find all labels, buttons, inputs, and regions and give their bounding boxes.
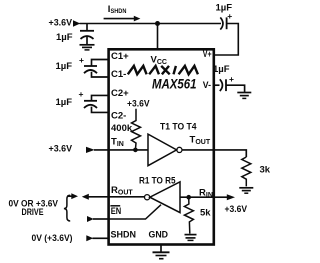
node VCC junction dot [155,21,160,26]
node +3.6V source arrow (top left) [73,20,80,26]
brace drive group [64,195,70,221]
svg-text:C1+: C1+ [111,51,129,62]
wire SHDN input [93,237,108,239]
svg-text:1µF: 1µF [56,61,73,72]
svg-text:+: + [229,74,234,84]
svg-text:1µF: 1µF [213,64,230,75]
svg-text:+3.6V: +3.6V [127,99,150,110]
ground (GND pin) [153,252,170,258]
svg-text:400k: 400k [111,123,133,134]
pin EN label with overline [110,206,121,217]
svg-text:DRIVE: DRIVE [22,207,44,218]
svg-text:V+: V+ [203,49,212,60]
svg-text:3k: 3k [260,165,271,176]
svg-text:RIN: RIN [199,187,213,199]
resistor R2 3k load [242,157,251,186]
wire RIN external [215,196,228,198]
svg-text:C2-: C2- [111,111,126,122]
svg-text:+3.6V: +3.6V [225,204,248,215]
node RIN junction dot [186,195,191,200]
ground (C3 negative return) [237,93,251,99]
ground (5k internal) [185,235,197,241]
node TIN input arrow [86,147,95,153]
node TIN junction dot [133,148,138,153]
node EN input arrow [87,216,94,222]
svg-text:+: + [79,89,84,99]
svg-text:+3.6V: +3.6V [49,143,73,154]
buffer T1-T4 inversion bubble [177,147,182,152]
wire TOUT output [182,150,246,157]
svg-text:T1 TO T4: T1 TO T4 [160,121,197,132]
svg-text:1µF: 1µF [56,32,73,43]
wire EN input [93,218,108,220]
svg-text:TOUT: TOUT [190,134,211,146]
svg-text:+3.6V: +3.6V [49,18,73,29]
ground (top left bypass cap) [80,45,95,50]
resistor R1 400k internal pullup [132,109,141,150]
IC U1 MAX561 package outline [109,49,214,244]
wire ROUT stub to arrow [88,196,108,198]
buffer R1-R5 inversion bubble [145,195,150,200]
svg-text:MAX561: MAX561 [152,76,197,92]
svg-text:0V (+3.6V): 0V (+3.6V) [32,233,73,244]
wire EN to buffer enable [108,205,162,219]
logo MAXIM [128,66,198,74]
svg-text:SHDN: SHDN [111,229,137,240]
node RIN external arrow to +3.6V [227,194,235,200]
svg-text:ISHDN: ISHDN [108,4,127,15]
buffer R1-R5 triangle [150,182,180,213]
capacitor C2 1uF flying [84,95,108,112]
svg-text:R1 TO R5: R1 TO R5 [139,175,176,186]
wire C4 to V+ pin [215,24,239,56]
wire TIN input [94,149,148,151]
node drive arrow (0V or +3.6V) [67,193,78,199]
wire RIN to buffer input [180,196,215,198]
capacitor C1 1uF flying [84,60,108,78]
wire GND pin [160,245,162,252]
svg-text:+: + [79,55,84,65]
wire top supply rail [80,23,222,25]
svg-text:C1-: C1- [111,69,126,80]
svg-text:1µF: 1µF [56,97,73,108]
arrow ISHDN current direction [104,16,141,22]
resistor R3 5k internal [184,197,193,233]
svg-text:5k: 5k [200,207,211,218]
node SHDN input arrow [86,235,93,241]
svg-text:TIN: TIN [111,137,124,149]
capacitor C3 1uF (V- to ground) [215,79,245,92]
svg-text:C2+: C2+ [111,88,129,99]
svg-text:V-: V- [203,80,211,91]
svg-text:+: + [227,11,232,21]
capacitor C4 1uF (top right, V+ charge pump) [220,17,226,29]
wire VCC pin drop [157,24,159,50]
capacitor C5 1uF bypass (top left) [80,24,94,45]
svg-text:VCC: VCC [151,54,167,66]
svg-text:GND: GND [149,229,169,240]
buffer T1-T4 triangle [148,134,177,166]
wire ROUT output [108,196,145,198]
ground (3k load) [239,188,253,193]
svg-text:ROUT: ROUT [111,185,133,197]
node ROUT output arrow [82,194,89,200]
svg-text:EN: EN [111,206,122,217]
